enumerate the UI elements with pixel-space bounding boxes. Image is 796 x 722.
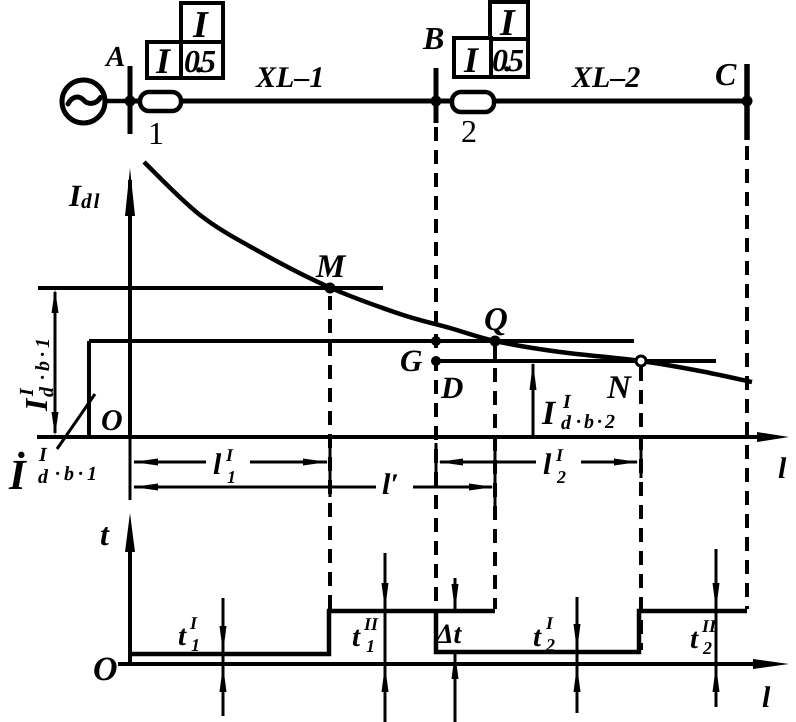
svg-text:0.5: 0.5 xyxy=(184,43,216,79)
relay box I (protection 1 zone II) xyxy=(147,42,181,78)
svg-text:N: N xyxy=(606,370,632,406)
time graph t-axis xyxy=(128,542,132,664)
dimension arrow I d.b.2 xyxy=(532,364,535,436)
svg-text:XL–2: XL–2 xyxy=(571,61,640,94)
svg-text:0.5: 0.5 xyxy=(492,42,524,78)
short-circuit current curve xyxy=(144,162,752,382)
svg-text:Δt: Δt xyxy=(435,619,463,650)
relay box I (protection 2 zone II) xyxy=(454,38,491,77)
bus B xyxy=(434,68,439,123)
tick below N dashed xyxy=(640,443,643,478)
node on B line at Q level xyxy=(431,336,441,346)
step of level line at left xyxy=(87,341,91,436)
node Q xyxy=(490,336,501,347)
svg-text:Q: Q xyxy=(484,302,508,338)
wire generator to bus A xyxy=(105,99,130,104)
marker t2^I xyxy=(576,597,579,713)
tick below B dashed xyxy=(435,443,438,478)
level line I'd.b.1 (through Q) xyxy=(89,339,634,343)
dashed line at C xyxy=(745,146,749,609)
level line I d.b.2 (through G and N) xyxy=(434,359,716,363)
node M xyxy=(325,283,336,294)
dashed line at N xyxy=(639,367,643,650)
generator G xyxy=(62,80,105,123)
node A junction dot xyxy=(125,96,136,107)
node N (open circle) xyxy=(636,356,646,366)
svg-text:l: l xyxy=(778,452,787,485)
relay box I (protection 2 zone I) xyxy=(490,2,528,41)
svg-text:D: D xyxy=(440,370,463,405)
node B junction dot xyxy=(431,96,442,107)
time step t2 (protection 2) xyxy=(436,611,747,652)
dashed line at Q xyxy=(493,345,497,609)
svg-text:1: 1 xyxy=(148,115,164,151)
tick below Q dashed xyxy=(494,447,497,517)
bus C xyxy=(744,64,750,140)
svg-text:I: I xyxy=(155,41,172,81)
relay box 0.5 (protection 1 time setting) xyxy=(181,42,223,78)
breaker 2 xyxy=(452,92,494,112)
svg-text:O: O xyxy=(93,651,118,688)
current graph y-axis xyxy=(128,180,132,437)
dimension l' xyxy=(134,486,376,489)
svg-text:M: M xyxy=(315,249,347,285)
marker t2^II xyxy=(715,549,718,707)
svg-text:I: I xyxy=(463,40,480,80)
bus A xyxy=(128,66,133,134)
dimension tick below origin xyxy=(129,437,132,500)
time step t1 (protection 1) xyxy=(130,611,495,654)
svg-text:G: G xyxy=(400,343,423,378)
label I-dot d.b.1 with leader xyxy=(57,394,95,449)
svg-text:B: B xyxy=(422,20,444,56)
breaker 1 xyxy=(140,92,181,111)
current graph x-axis xyxy=(37,435,770,439)
marker t1^I xyxy=(222,598,225,716)
dimension l2^I xyxy=(440,461,536,464)
svg-text:I: I xyxy=(192,4,209,46)
wire XL-2 (bus B to bus C) xyxy=(436,99,747,104)
tick below M dashed xyxy=(329,446,332,497)
level line I d.b.1 (through M) xyxy=(38,286,383,290)
svg-text:l: l xyxy=(762,681,771,714)
svg-text:A: A xyxy=(104,41,125,73)
relay box I (protection 1 zone I) xyxy=(181,3,223,42)
time graph x-axis xyxy=(118,662,762,666)
node G xyxy=(431,356,441,366)
marker t1^II xyxy=(384,553,387,722)
node C junction dot xyxy=(742,96,753,107)
svg-text:C: C xyxy=(715,56,737,92)
svg-text:t: t xyxy=(100,516,110,552)
svg-text:O: O xyxy=(101,404,123,437)
dimension arrow I d.b.1 (left vertical) xyxy=(54,292,57,433)
dimension l1^I xyxy=(134,461,206,464)
relay box 0.5 (protection 2 time setting) xyxy=(491,39,528,77)
dashed line at M xyxy=(328,296,332,609)
marker delta-t xyxy=(454,578,457,610)
svg-text:l′: l′ xyxy=(382,468,399,501)
svg-text:XL–1: XL–1 xyxy=(255,61,324,94)
wire XL-1 (bus A to bus B) xyxy=(130,99,435,104)
svg-text:2: 2 xyxy=(461,113,477,149)
dashed line at B xyxy=(434,127,438,609)
